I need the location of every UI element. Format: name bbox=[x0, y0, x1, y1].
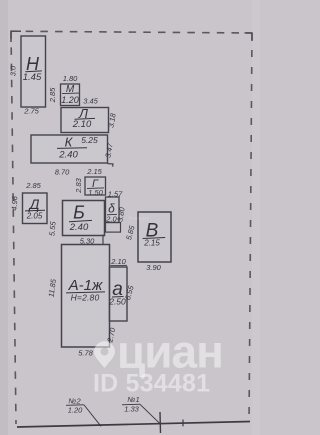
label A-1zh bbox=[66, 277, 105, 303]
svg-text:2.15: 2.15 bbox=[143, 239, 160, 248]
building G outline bbox=[85, 177, 106, 195]
building K outline bbox=[31, 135, 108, 163]
svg-text:ID 534481: ID 534481 bbox=[93, 370, 210, 398]
label M bbox=[61, 84, 79, 105]
label B bbox=[69, 203, 92, 233]
boundary: top dashed line bbox=[11, 31, 252, 33]
svg-text:2.40: 2.40 bbox=[58, 150, 78, 161]
shed delta lower annex bbox=[106, 223, 121, 233]
svg-text:2.10: 2.10 bbox=[72, 119, 92, 130]
svg-text:1.80: 1.80 bbox=[63, 74, 78, 83]
svg-text:5.55: 5.55 bbox=[47, 220, 57, 236]
svg-text:5.78: 5.78 bbox=[78, 349, 93, 358]
label L bbox=[72, 106, 95, 130]
svg-text:2.83: 2.83 bbox=[74, 177, 83, 193]
svg-text:1.20: 1.20 bbox=[68, 406, 83, 415]
svg-text:1.45: 1.45 bbox=[23, 72, 42, 83]
label K bbox=[57, 135, 98, 161]
boundary: left dashed line bbox=[11, 31, 16, 424]
wall between B and A-1zh bbox=[102, 235, 104, 246]
svg-text:Б: Б bbox=[73, 203, 85, 223]
boundary: top-left corner elbow bbox=[11, 31, 21, 42]
svg-text:1.50: 1.50 bbox=[88, 188, 103, 197]
svg-text:Реклама: Реклама bbox=[129, 216, 149, 222]
svg-text:1.20: 1.20 bbox=[61, 95, 79, 105]
dimension 2.10 above a bbox=[110, 257, 127, 266]
svg-text:3.0: 3.0 bbox=[9, 65, 18, 76]
svg-text:2.40: 2.40 bbox=[69, 222, 89, 233]
svg-text:5.25: 5.25 bbox=[81, 135, 98, 145]
svg-text:А-1ж: А-1ж bbox=[68, 277, 103, 294]
svg-text:2.05: 2.05 bbox=[26, 211, 43, 220]
label a bbox=[108, 279, 126, 307]
gate note N2 bbox=[66, 397, 101, 427]
porch a outline bbox=[110, 267, 128, 321]
svg-text:Д: Д bbox=[28, 196, 40, 212]
boundary: top-right corner elbow bbox=[245, 33, 253, 41]
building L outline bbox=[61, 108, 109, 133]
svg-text:2.15: 2.15 bbox=[86, 167, 102, 176]
building V outline bbox=[138, 212, 171, 262]
svg-text:δ: δ bbox=[108, 202, 115, 216]
boundary: right dashed line bbox=[249, 33, 252, 422]
label delta bbox=[105, 202, 117, 224]
watermark pin logo bbox=[94, 341, 115, 368]
svg-text:2.85: 2.85 bbox=[48, 87, 57, 103]
svg-text:2.10: 2.10 bbox=[110, 257, 126, 266]
label V bbox=[143, 221, 166, 248]
svg-text:2.85: 2.85 bbox=[25, 181, 41, 190]
svg-text:4.96: 4.96 bbox=[10, 195, 20, 211]
label D bbox=[25, 196, 45, 220]
fence tick short bbox=[182, 420, 184, 427]
svg-text:2.75: 2.75 bbox=[23, 107, 39, 116]
svg-text:К: К bbox=[65, 135, 74, 150]
svg-text:№2: №2 bbox=[68, 397, 81, 406]
fence tick tall at gate N1 bbox=[159, 412, 162, 433]
building M outline bbox=[61, 84, 80, 106]
label H bbox=[23, 54, 42, 83]
svg-text:Н=2.80: Н=2.80 bbox=[71, 293, 100, 303]
K bottom edge extension with hook bbox=[108, 164, 114, 167]
shed delta outline bbox=[106, 197, 120, 223]
main house A-1zh outline bbox=[62, 245, 110, 348]
building D outline bbox=[23, 193, 48, 224]
svg-text:3.90: 3.90 bbox=[146, 263, 161, 272]
gate note N1 bbox=[122, 395, 160, 424]
building B outline bbox=[63, 201, 105, 236]
svg-text:3.45: 3.45 bbox=[83, 97, 98, 106]
building H outline bbox=[21, 36, 46, 107]
svg-text:1.33: 1.33 bbox=[124, 405, 139, 414]
svg-text:8.70: 8.70 bbox=[55, 168, 70, 177]
boundary: bottom solid line bbox=[17, 422, 250, 428]
label G bbox=[87, 178, 104, 197]
